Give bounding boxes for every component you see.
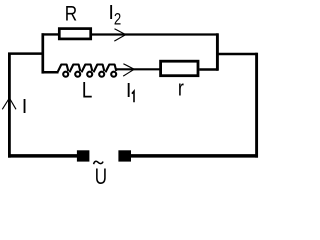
node B: right junction vertical bar [216,33,219,70]
wire: top-left horizontal from left wire to node A [8,52,44,55]
wire: bottom left horizontal [8,154,78,158]
wire: lower branch from inductor L to resistor r [116,68,161,70]
label 1 subscript of I1 [132,91,134,102]
resistor R1 body [59,29,90,39]
wire: bottom right horizontal [130,154,258,158]
arrow: current I direction arrow on left wire (pointing up) [2,98,16,109]
svg-text:r: r [178,77,184,101]
svg-text:R: R [65,2,77,26]
inductor L coil (5 loops) [58,65,117,77]
wire: lower branch horizontal from node A to inductor L [42,71,59,74]
svg-text:I: I [126,80,132,102]
wire: lower branch from resistor r to node B [199,68,218,70]
terminal: right source terminal (black square) [118,150,131,161]
resistor r body [161,61,198,75]
svg-text:I: I [22,96,28,118]
wire: middle horizontal from node B to right main wire [216,53,258,56]
arrow: current I1 direction arrow on lower branch [123,64,134,76]
arrow: current I2 direction arrow on top branch [114,29,125,41]
wire: top branch segment from node A to resistor R [42,33,60,35]
label ~ tilde of AC source U [94,161,104,164]
wire: top branch segment from resistor R to node B [92,33,218,35]
terminal: left source terminal (black square) [77,150,90,161]
wire: right vertical main wire [255,53,258,158]
svg-text:U: U [95,165,107,187]
wire: left vertical main wire [8,53,11,158]
node A: left junction vertical bar [41,33,44,73]
svg-text:2: 2 [114,10,121,29]
svg-text:L: L [82,78,93,103]
